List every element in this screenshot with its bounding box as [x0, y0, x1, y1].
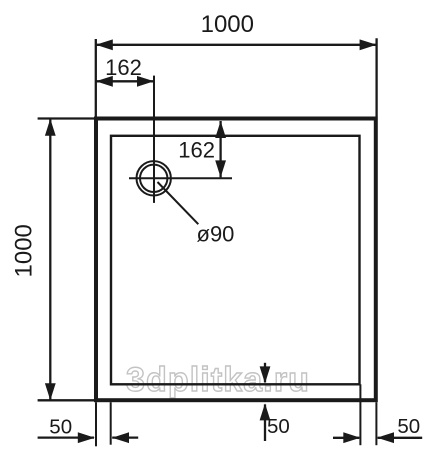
svg-text:1000: 1000 — [10, 224, 37, 277]
svg-text:ø90: ø90 — [197, 222, 235, 247]
svg-text:162: 162 — [105, 55, 142, 80]
svg-text:1000: 1000 — [201, 11, 254, 38]
svg-text:50: 50 — [49, 415, 72, 438]
svg-text:50: 50 — [397, 415, 420, 438]
svg-text:50: 50 — [267, 415, 290, 438]
svg-text:162: 162 — [178, 137, 215, 162]
